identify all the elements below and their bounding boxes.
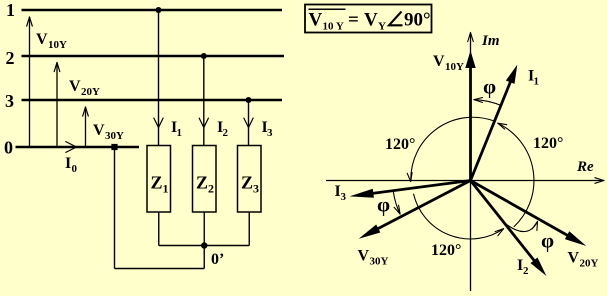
junction node on line 3 bbox=[246, 97, 252, 103]
node 0prime dot bbox=[201, 242, 207, 248]
current arrow I0 on neutral bbox=[65, 142, 78, 175]
svg-text:V: V bbox=[69, 78, 81, 95]
phasor I2 bbox=[471, 181, 547, 278]
junction node on line 0 bbox=[111, 144, 117, 150]
svg-text:0’: 0’ bbox=[211, 251, 224, 268]
voltage arrow V10Y bbox=[27, 17, 67, 146]
svg-text:φ: φ bbox=[483, 75, 496, 99]
svg-text:0: 0 bbox=[72, 163, 78, 175]
junction node on line 2 bbox=[201, 53, 207, 59]
wire Z3 bottom drop bbox=[248, 212, 250, 246]
svg-text:1: 1 bbox=[177, 127, 183, 139]
svg-text:2: 2 bbox=[208, 182, 214, 196]
current arrow I3 bbox=[244, 118, 273, 139]
svg-text:V: V bbox=[364, 10, 378, 31]
svg-text:Z: Z bbox=[151, 173, 163, 193]
svg-text:V: V bbox=[358, 248, 370, 265]
junction node on line 1 bbox=[156, 7, 162, 13]
current arrow I2 bbox=[199, 118, 228, 139]
svg-text:2: 2 bbox=[523, 265, 529, 277]
svg-text:V: V bbox=[36, 31, 48, 48]
svg-text:10 Y: 10 Y bbox=[323, 21, 344, 33]
svg-text:3: 3 bbox=[267, 127, 273, 139]
svg-text:3: 3 bbox=[253, 182, 259, 196]
svg-text:120°: 120° bbox=[385, 136, 415, 153]
angle arc phi3 (I3 to V30Y) bbox=[377, 191, 400, 216]
svg-text:90°: 90° bbox=[404, 10, 431, 31]
svg-text:120°: 120° bbox=[431, 242, 461, 259]
wire drop to Z3 bbox=[248, 100, 250, 146]
svg-text:=: = bbox=[348, 10, 359, 31]
wire return up to neutral bbox=[114, 147, 116, 269]
current arrow I1 bbox=[154, 118, 182, 139]
svg-text:2: 2 bbox=[6, 48, 15, 68]
svg-text:φ: φ bbox=[377, 193, 390, 217]
svg-text:V: V bbox=[433, 53, 445, 70]
impedance box Z3 bbox=[238, 146, 262, 213]
wire drop to Z2 bbox=[203, 56, 205, 146]
phasor V20Y bbox=[471, 181, 599, 270]
wire Z2 bottom drop bbox=[203, 212, 205, 246]
svg-text:Z: Z bbox=[196, 173, 208, 193]
svg-text:120°: 120° bbox=[533, 135, 563, 152]
wire neutral bus at 0prime bbox=[159, 245, 250, 247]
axis Re bbox=[326, 159, 604, 183]
wire bottom return segment bbox=[115, 268, 205, 270]
svg-text:10Y: 10Y bbox=[445, 61, 464, 73]
svg-text:20Y: 20Y bbox=[81, 86, 100, 98]
wire neutral line 0 bbox=[16, 146, 140, 148]
svg-text:30Y: 30Y bbox=[370, 256, 389, 268]
wire 0prime down segment bbox=[203, 246, 205, 269]
svg-text:30Y: 30Y bbox=[105, 130, 124, 142]
svg-text:2: 2 bbox=[223, 127, 229, 139]
wire phase line 2 bbox=[22, 55, 285, 57]
phasor V30Y bbox=[358, 181, 471, 268]
voltage arrow V30Y bbox=[83, 107, 124, 146]
phasor I1 bbox=[471, 65, 540, 181]
svg-text:V: V bbox=[309, 10, 323, 31]
svg-text:20Y: 20Y bbox=[580, 258, 599, 270]
formula box V10Y = VY angle 90 bbox=[305, 5, 432, 33]
svg-text:V: V bbox=[568, 250, 580, 267]
angle arc phi2 (I2 to V20Y) bbox=[507, 222, 555, 253]
svg-text:Y: Y bbox=[378, 21, 386, 33]
axis Im bbox=[468, 33, 500, 292]
impedance box Z1 bbox=[147, 146, 171, 213]
phasor I3 bbox=[335, 181, 471, 204]
svg-text:Z: Z bbox=[241, 173, 253, 193]
angle arc 120deg bottom (I3 to I2) bbox=[414, 194, 504, 259]
impedance box Z2 bbox=[193, 146, 217, 213]
svg-text:φ: φ bbox=[541, 229, 554, 253]
svg-text:V: V bbox=[93, 122, 105, 139]
svg-text:3: 3 bbox=[5, 91, 14, 111]
angle arc 120deg right (I2 to I1) bbox=[498, 123, 564, 227]
svg-text:0: 0 bbox=[4, 138, 13, 158]
svg-text:Re: Re bbox=[576, 159, 594, 175]
svg-text:1: 1 bbox=[6, 0, 15, 20]
angle arc 120deg left (I1 to I3) bbox=[385, 117, 494, 181]
svg-text:I: I bbox=[65, 155, 71, 172]
svg-text:1: 1 bbox=[534, 76, 540, 88]
wire Z1 bottom drop bbox=[158, 212, 160, 246]
wire drop to Z1 bbox=[158, 10, 160, 146]
phasor V10Y bbox=[433, 51, 476, 181]
voltage arrow V20Y bbox=[54, 63, 100, 147]
svg-text:3: 3 bbox=[341, 191, 347, 203]
svg-text:10Y: 10Y bbox=[48, 39, 67, 51]
angle arc phi1 (I1 to V10Y) bbox=[474, 75, 502, 106]
svg-text:1: 1 bbox=[163, 182, 169, 196]
wire phase line 3 bbox=[22, 99, 283, 101]
svg-text:Im: Im bbox=[481, 33, 500, 49]
wire phase line 1 bbox=[22, 9, 283, 11]
